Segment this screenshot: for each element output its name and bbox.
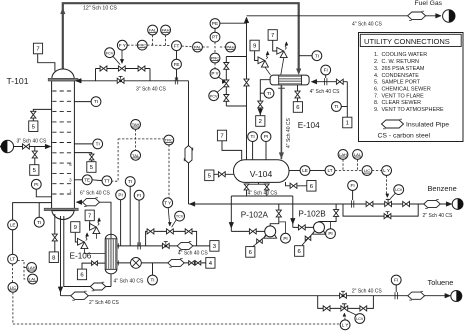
svg-text:UTILITY CONNECTIONS: UTILITY CONNECTIONS	[364, 37, 450, 46]
wire: reboiler feed line	[64, 216, 111, 287]
utility box 6 (P-102B drain)	[295, 246, 304, 257]
insulated pipe symbol benzene	[424, 200, 441, 207]
instrument LIC V-104	[362, 166, 372, 176]
utility box 3 steam	[210, 241, 219, 252]
signal PRC-PY	[214, 63, 216, 69]
orifice toluene FI	[394, 292, 396, 299]
wire: E-106 drain to 6	[82, 263, 105, 269]
instrument LT bottom	[8, 254, 18, 264]
instrument PY	[210, 69, 220, 79]
svg-text:Fuel Gas: Fuel Gas	[415, 0, 443, 7]
svg-text:TI: TI	[334, 104, 338, 109]
instrument LIC bottom	[8, 282, 18, 292]
svg-text:LIC: LIC	[364, 168, 370, 173]
wire: feed sample branch	[34, 147, 36, 165]
svg-text:FI: FI	[351, 183, 355, 188]
svg-text:LT: LT	[10, 257, 15, 262]
svg-text:VENT TO FLARE: VENT TO FLARE	[382, 93, 425, 99]
svg-text:9: 9	[74, 225, 77, 231]
control valve LCV toluene	[341, 306, 344, 311]
insulated pipe symbol fuel gas	[408, 12, 426, 20]
svg-text:LCV: LCV	[356, 317, 364, 321]
svg-text:FI: FI	[324, 68, 328, 73]
valve condensate 2	[195, 261, 198, 265]
utility box 7 vent to flare (V-104)	[217, 130, 226, 141]
wire: overhead vapor line 12in from T-101 to E-104	[63, 3, 299, 72]
svg-text:2" Sch 40 CS: 2" Sch 40 CS	[423, 213, 454, 219]
svg-text:FAH: FAH	[162, 28, 170, 33]
svg-text:PI: PI	[283, 236, 287, 241]
wire: TCV loop	[146, 231, 197, 246]
insulated pipe symbol reboiler feed	[90, 283, 106, 290]
svg-text:PI: PI	[328, 231, 332, 236]
svg-text:F Y: F Y	[119, 43, 126, 48]
signal FAL drop	[152, 35, 154, 45]
svg-text:LAL: LAL	[354, 152, 362, 157]
utility box 7 vent to flare (column top)	[33, 43, 42, 54]
valve tag LCV toluene	[355, 314, 365, 324]
control valve FCV on reflux	[118, 66, 121, 71]
relief valve PSV E-106 lower	[78, 238, 85, 245]
instrument PAL	[193, 42, 203, 52]
valve tag PCV	[209, 91, 219, 101]
wire PE-PT	[214, 28, 216, 32]
wire: bottoms to toluene line	[60, 216, 62, 296]
wire: V-104 bottom outlet	[258, 182, 260, 184]
svg-text:PCV: PCV	[210, 94, 218, 98]
utility box 7 vent to flare (E-104)	[268, 30, 277, 41]
arrow to toluene offpage	[445, 293, 451, 298]
svg-text:CONDENSATE: CONDENSATE	[382, 73, 420, 79]
instrument PI P-102B	[326, 229, 336, 239]
wire: CW inlet riser from utility 1	[346, 82, 348, 117]
signal PT-PRC	[214, 42, 216, 53]
instrument TI column mid	[93, 139, 103, 149]
signal PY to PCV valve	[218, 77, 224, 81]
svg-text:PRC: PRC	[211, 56, 220, 61]
globe valve on reflux bypass	[117, 78, 120, 83]
svg-text:P-102A: P-102A	[241, 211, 269, 220]
svg-text:V-104: V-104	[250, 169, 273, 179]
svg-text:LIC: LIC	[10, 285, 16, 290]
utility box 7 vent to flare (E-106)	[85, 210, 94, 221]
E-104 condensate nozzle flange	[278, 87, 285, 89]
svg-text:5.: 5.	[374, 80, 379, 86]
instrument FI benzene	[348, 181, 358, 191]
svg-text:4" Sch 40 CS: 4" Sch 40 CS	[310, 89, 341, 95]
insulated pipe symbol toluene left	[71, 292, 89, 299]
valve on PCV branch lower	[224, 95, 229, 98]
orifice on CW inlet	[324, 78, 326, 85]
svg-text:Benzene: Benzene	[428, 184, 457, 193]
insulated pipe symbol vapor return	[83, 199, 100, 206]
svg-text:9.: 9.	[374, 107, 379, 113]
instrument FAH	[161, 25, 171, 35]
heat exchanger E-104 shell	[270, 75, 309, 85]
signal TY to TCV	[168, 208, 169, 224]
svg-text:4" Sch 40 CS: 4" Sch 40 CS	[114, 278, 145, 284]
svg-text:E-106: E-106	[70, 252, 92, 261]
sample port 5 column right	[74, 153, 91, 162]
instrument LT on V-104	[310, 170, 325, 172]
valve on CW inlet	[336, 79, 339, 84]
valve suction A	[244, 184, 249, 187]
insulated pipe symbol steam	[177, 242, 193, 249]
svg-text:2" Sch 40 CS: 2" Sch 40 CS	[352, 289, 383, 295]
svg-text:C. W. RETURN: C. W. RETURN	[382, 59, 420, 65]
svg-text:P Y: P Y	[211, 71, 218, 76]
svg-text:PAL: PAL	[194, 45, 202, 50]
instrument FI toluene	[391, 275, 401, 285]
svg-text:TI: TI	[37, 220, 41, 225]
column T-101 top flange	[48, 78, 78, 81]
valve suction B	[264, 184, 269, 187]
wire: reflux line 3in to column top	[96, 68, 151, 70]
svg-text:PT: PT	[212, 35, 218, 40]
signal LIC to toluene LY	[12, 292, 14, 324]
wire: pump suction header	[231, 195, 292, 197]
wire PE tap to fuel riser	[220, 22, 247, 24]
relief valve PSV on E-104 shell	[277, 47, 284, 54]
signal LT-LIC	[12, 264, 14, 282]
instrument FI steam	[134, 190, 144, 200]
utility box 6 (V-104 drain)	[307, 181, 316, 192]
svg-text:LCV: LCV	[395, 188, 403, 192]
bypass valve fuel riser	[244, 79, 249, 82]
svg-text:7: 7	[220, 134, 223, 140]
svg-text:TI: TI	[267, 91, 271, 96]
svg-text:PI: PI	[34, 182, 38, 187]
svg-text:CHEMICAL SEWER: CHEMICAL SEWER	[382, 86, 431, 92]
utility box 5 sample port (V-104)	[205, 170, 214, 181]
control valve PCV fuel gas	[224, 80, 229, 83]
svg-text:COOLING WATER: COOLING WATER	[382, 52, 428, 58]
svg-text:P-102B: P-102B	[298, 210, 326, 219]
wire FT-FE	[176, 51, 178, 60]
svg-text:8.: 8.	[374, 100, 379, 106]
instrument PAH	[226, 42, 236, 52]
utility box 9 vent (E-104)	[250, 40, 259, 51]
instrument TT column	[102, 176, 112, 186]
instrument PI P-102A	[281, 233, 291, 243]
svg-text:FI: FI	[394, 278, 398, 283]
svg-text:TCV: TCV	[176, 215, 184, 219]
wire: fuel gas line from V-104 to fuel gas header	[246, 106, 248, 160]
instrument TAL	[131, 150, 141, 160]
instrument TI on V-104 top	[248, 132, 258, 142]
svg-text:4" Sch 40 CS: 4" Sch 40 CS	[286, 117, 292, 148]
svg-text:4.: 4.	[374, 73, 379, 79]
relief valve PSV on E-104 left	[258, 57, 265, 64]
svg-text:TI: TI	[315, 53, 319, 58]
valve P-102A suction	[249, 229, 252, 234]
utility box 6 (E-106 drain)	[77, 269, 86, 280]
instrument TI column upper	[91, 97, 101, 107]
wire: column drain to 8	[54, 214, 56, 252]
sample port 5 column upper	[33, 109, 51, 120]
wire FE to orifice	[176, 69, 178, 80]
instrument FY	[117, 40, 127, 50]
utility box 5 (upper)	[29, 121, 38, 132]
offpage connector fuel gas	[443, 10, 455, 22]
column T-101 top head	[52, 69, 74, 79]
signal TRC to TY	[168, 145, 170, 198]
wire: V-104 vent to flare	[222, 141, 242, 160]
wire: P-102B drain	[302, 232, 314, 245]
signal TT to TRC	[111, 139, 118, 181]
svg-text:12" Sch 10 CS: 12" Sch 10 CS	[83, 5, 117, 11]
wire: reflux from FE orifice	[150, 80, 189, 82]
svg-text:1.: 1.	[374, 52, 379, 58]
utility box 9 vent to atmosphere (E-106)	[71, 222, 80, 233]
wire: cooling water inlet to E-104	[313, 81, 347, 83]
insulated pipe symbol condensate	[168, 259, 184, 266]
wire: P-102A discharge	[270, 204, 279, 226]
instrument LE bottom	[8, 220, 18, 230]
svg-text:TAH: TAH	[132, 122, 140, 127]
svg-text:7.: 7.	[374, 93, 379, 99]
globe valve toluene main	[340, 293, 343, 298]
signal LAL drop	[357, 159, 359, 170]
svg-text:TRC: TRC	[165, 138, 173, 143]
instrument FT	[172, 41, 182, 51]
utility box 8 clear sewer	[49, 252, 58, 263]
svg-text:1: 1	[346, 121, 349, 127]
instrument FI on CW inlet	[321, 65, 331, 75]
utility box 5 (right)	[87, 162, 96, 173]
svg-text:LE: LE	[302, 168, 308, 173]
svg-text:TI: TI	[150, 278, 154, 283]
svg-text:FT: FT	[174, 43, 180, 48]
insulated pipe symbol on reflux riser (vertical)	[185, 146, 192, 164]
instrument PI steam	[116, 190, 126, 200]
relief valve PSV E-106 upper	[90, 223, 97, 230]
instrument TAH	[131, 120, 141, 130]
valve tag FCV	[105, 48, 115, 58]
wire: V-104 drain to 6	[286, 182, 307, 186]
svg-text:7: 7	[36, 47, 39, 53]
instrument FAL	[148, 25, 158, 35]
utility box 2 CW return	[256, 116, 265, 127]
svg-text:CLEAR SEWER: CLEAR SEWER	[382, 100, 422, 106]
wire: suction drop to P-102A	[230, 196, 232, 231]
instrument TI steam	[125, 177, 135, 187]
svg-text:9: 9	[253, 44, 256, 50]
valve on PCV branch upper	[224, 63, 229, 66]
svg-text:FCV: FCV	[106, 51, 114, 55]
svg-text:6.: 6.	[374, 86, 379, 92]
instrument PI on V-104 top	[261, 132, 271, 142]
svg-text:LT: LT	[327, 168, 332, 173]
svg-text:TI: TI	[128, 179, 132, 184]
instrument TI on CW riser	[332, 102, 342, 112]
signal FY to valve	[121, 50, 123, 61]
valve tag TCV	[175, 211, 185, 221]
wire: toluene LCV bypass loop	[318, 296, 374, 309]
signal FRC-FT	[147, 44, 172, 46]
signal FY-FRC	[127, 44, 137, 46]
svg-text:FI: FI	[137, 193, 141, 198]
svg-text:PAH: PAH	[226, 45, 234, 50]
valve on reflux line right	[138, 66, 141, 71]
orifice FI benzene	[350, 200, 352, 207]
svg-text:PI: PI	[264, 134, 268, 139]
wire: suction drop to P-102B	[292, 196, 294, 227]
signal LY to LCV toluene	[344, 315, 347, 320]
svg-text:2: 2	[259, 119, 262, 125]
instrument PRC	[210, 53, 220, 63]
svg-text:FAL: FAL	[149, 28, 157, 33]
svg-text:2" Sch 40 CS: 2" Sch 40 CS	[89, 300, 120, 306]
svg-text:TI: TI	[251, 134, 255, 139]
svg-text:E-104: E-104	[298, 121, 320, 130]
svg-text:LAH: LAH	[339, 152, 347, 157]
utility box 6 chemical sewer (E-104)	[293, 102, 302, 113]
wire: steam line 265 psia to E-106	[117, 245, 210, 247]
arrow to benzene offpage	[446, 202, 452, 207]
wire: level standpipe	[13, 203, 52, 220]
svg-text:6" Sch 40 CS: 6" Sch 40 CS	[80, 190, 111, 196]
svg-text:PE: PE	[212, 21, 218, 26]
svg-text:L Y: L Y	[383, 168, 390, 173]
insulated pipe symbol toluene right	[408, 292, 425, 299]
utility box 5 (feed)	[30, 165, 39, 176]
instrument FRC	[137, 40, 147, 50]
valve TCV loop right	[185, 229, 188, 234]
wire: CW return from E-104	[260, 80, 270, 116]
svg-text:SAMPLE PORT: SAMPLE PORT	[382, 80, 421, 86]
wire: column top PSV vent	[38, 54, 55, 71]
orifice FE on reflux line	[174, 77, 176, 84]
signal LAH drop	[342, 159, 344, 170]
wire: reflux riser from pump header	[188, 81, 190, 146]
instrument LY toluene	[340, 320, 350, 330]
valve condensate 1	[189, 261, 192, 265]
utility box 1 cooling water	[343, 117, 352, 128]
instrument LAL bottom	[28, 274, 38, 284]
instrument LAH V-104	[338, 150, 348, 160]
wire: reflux bypass loop	[96, 69, 151, 81]
svg-text:PI: PI	[118, 192, 122, 197]
legend insulated pipe symbol	[382, 120, 404, 128]
wire: feed line 3in	[14, 146, 49, 148]
steam trap on condensate	[131, 258, 142, 269]
pump P-102A	[265, 226, 276, 237]
svg-text:265 PSIA STEAM: 265 PSIA STEAM	[382, 66, 425, 72]
wire: E-104 drain to chemical sewer	[297, 85, 299, 101]
utility box 4 condensate	[206, 258, 215, 269]
column T-101 bottom flange	[44, 208, 78, 210]
offpage connector Toluene	[451, 291, 462, 302]
instrument FE	[172, 59, 182, 69]
svg-text:Insulated Pipe: Insulated Pipe	[406, 122, 449, 129]
svg-text:3" Sch 40 CS: 3" Sch 40 CS	[136, 86, 167, 92]
utility connections legend box	[359, 33, 464, 142]
svg-text:FE: FE	[174, 62, 180, 67]
wire: vapor return to column 6in	[80, 202, 111, 238]
wire: V-104 sample port 5	[214, 173, 234, 175]
instrument PE	[210, 19, 220, 29]
E-106 tubes	[106, 239, 108, 268]
wire: condensate from E-104 to V-104 4in	[280, 85, 282, 159]
instrument LAL V-104	[353, 150, 363, 160]
svg-text:4" Sch 40 CS: 4" Sch 40 CS	[248, 191, 279, 197]
svg-text:7: 7	[271, 33, 274, 39]
instrument LAH bottom	[27, 263, 37, 273]
svg-text:FRC: FRC	[138, 43, 146, 48]
svg-text:CS - carbon steel: CS - carbon steel	[378, 132, 431, 139]
valve on CW return	[258, 101, 263, 104]
wire: pump discharge header to reflux riser	[189, 202, 195, 207]
svg-text:3.: 3.	[374, 66, 379, 72]
svg-text:3" Sch 40 CS: 3" Sch 40 CS	[17, 139, 48, 145]
signal LIC-LY	[372, 170, 382, 172]
E-104 tubes	[279, 76, 301, 78]
signal TRC-TAH/TAL	[118, 138, 164, 140]
valve benzene downstream	[403, 201, 406, 206]
instrument TE column	[82, 175, 92, 185]
control valve LCV benzene	[385, 201, 388, 206]
utility box 6 (P-102A drain)	[246, 247, 255, 258]
wire: benzene bypass	[343, 204, 418, 216]
svg-text:2.: 2.	[374, 59, 379, 65]
instrument TI condensate	[148, 275, 158, 285]
svg-text:LE: LE	[10, 223, 16, 228]
instrument PT	[210, 32, 220, 42]
reboiler E-106 shell	[105, 234, 117, 274]
wire: pump discharge header to benzene	[189, 203, 447, 205]
signal LY to LCV	[386, 175, 388, 195]
instrument TI on CW return	[264, 88, 274, 98]
wire: condensate from E-106 to 4	[117, 262, 206, 264]
svg-text:VENT TO ATMOSPHERE: VENT TO ATMOSPHERE	[382, 107, 445, 113]
instrument PI column	[31, 179, 41, 189]
svg-text:7: 7	[88, 214, 91, 220]
column T-101 trays (dashed)	[52, 90, 73, 92]
valve P-102B suction	[298, 225, 301, 230]
globe valve steam bypass	[162, 243, 165, 248]
globe valve benzene bypass	[384, 214, 387, 219]
svg-text:TI: TI	[94, 99, 98, 104]
signal LT-LAH-LAL	[18, 261, 28, 280]
valve tag LCV benzene	[394, 185, 404, 195]
instrument TRC	[164, 135, 174, 145]
signal FAH drop	[165, 35, 167, 45]
valve toluene loop right	[360, 306, 363, 311]
signal LT-LIC	[335, 170, 362, 172]
signal PAL-PRC-PAH	[202, 46, 210, 48]
instrument TI on overhead line	[312, 51, 322, 61]
offpage connector Benzene	[452, 199, 463, 210]
svg-text:4" Sch 40 CS: 4" Sch 40 CS	[178, 250, 209, 256]
instrument TY	[163, 198, 173, 208]
control valve TCV steam	[167, 229, 170, 234]
wire: toluene product line 2in	[61, 295, 446, 297]
valve benzene upstream	[366, 201, 369, 206]
instrument TI standpipe	[34, 217, 44, 227]
svg-text:LAH: LAH	[28, 265, 36, 270]
valve TCV loop left	[147, 229, 150, 234]
vessel V-104 reflux drum	[234, 160, 290, 183]
arrow to fuel gas offpage	[436, 14, 442, 19]
svg-text:T Y: T Y	[164, 200, 171, 205]
signal TAH-TAL	[135, 129, 137, 150]
valve toluene loop left	[323, 306, 326, 311]
svg-text:4" Sch 40 CS: 4" Sch 40 CS	[352, 22, 383, 28]
column T-101 bottom head	[52, 211, 74, 220]
pump P-102B	[314, 222, 325, 233]
svg-text:TI: TI	[96, 142, 100, 147]
